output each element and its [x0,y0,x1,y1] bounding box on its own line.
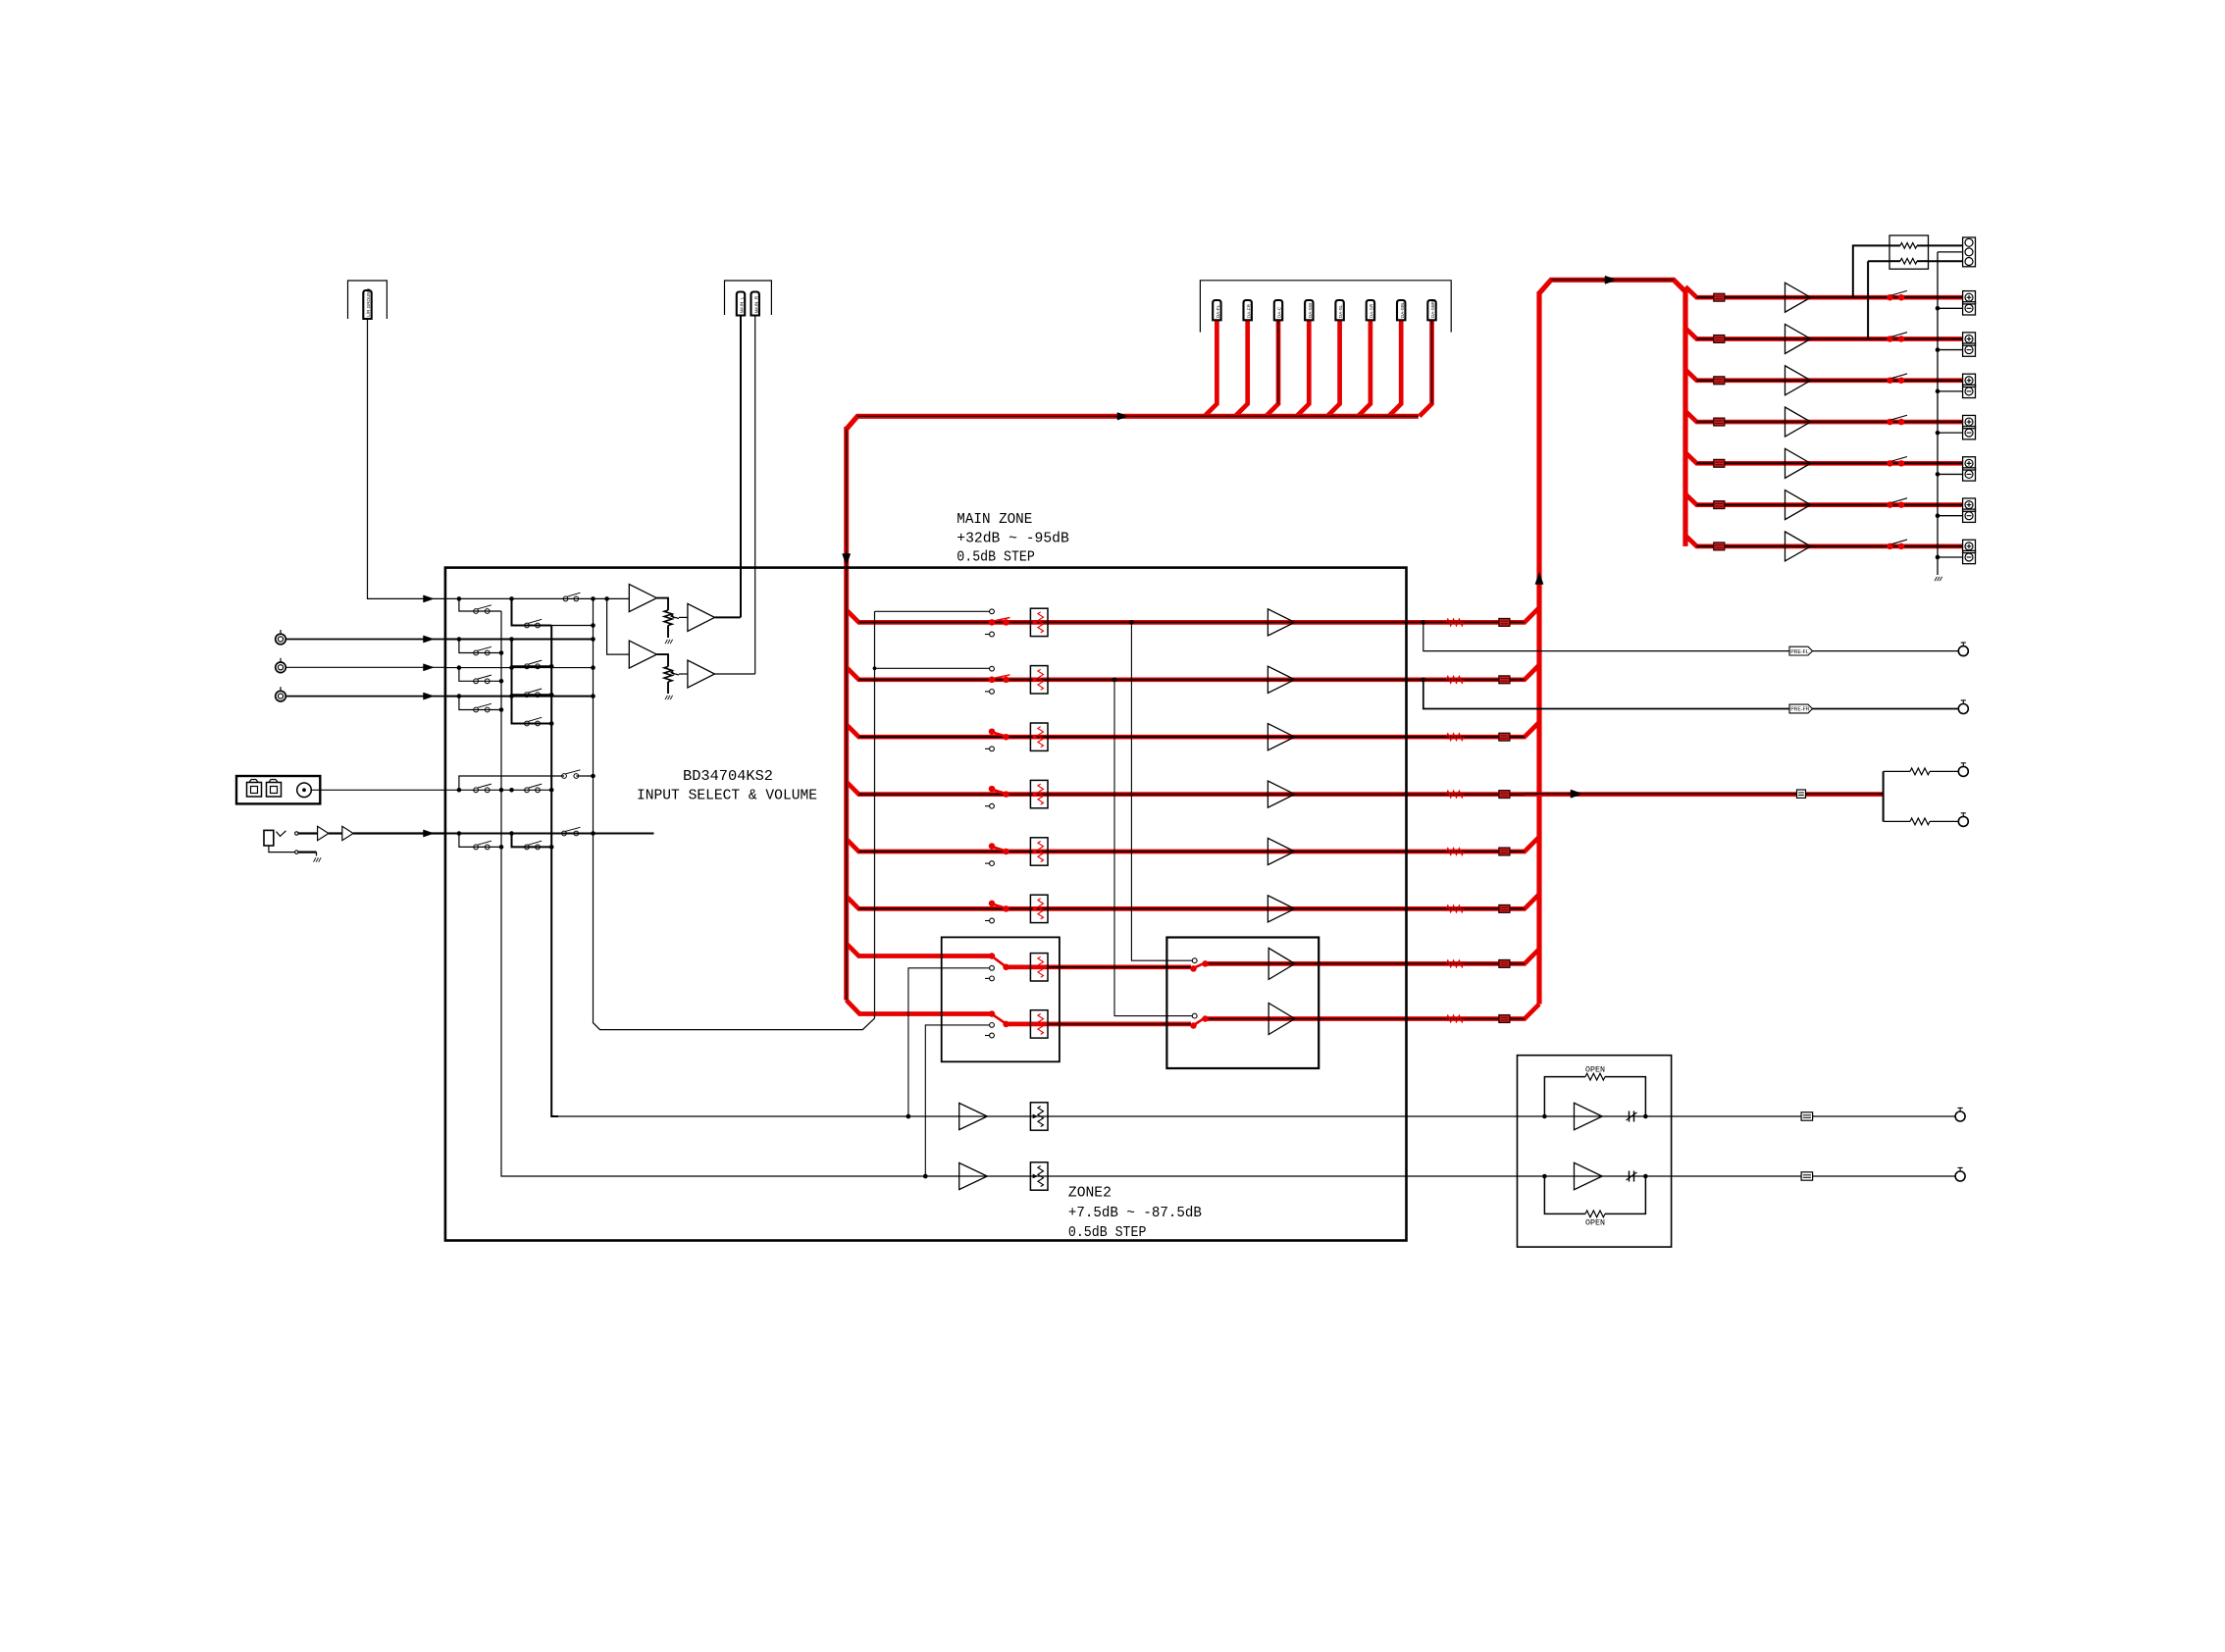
power amp SR [1785,448,1811,478]
wire ampA out to pot [656,598,668,610]
wire red row 7 output segment [1206,949,1540,963]
zone2 out row [1518,1175,1672,1177]
capacitor (no mount) [1629,1111,1630,1122]
switch row2a col1 [474,650,479,655]
impedance select terminal [1963,237,1976,267]
svg-text:INPUT SELECT & VOLUME: INPUT SELECT & VOLUME [637,789,817,804]
alt input line row1 [875,610,990,612]
wire black core bus top run [1551,279,1674,281]
capacitor (no mount) [1629,1171,1630,1182]
wire red channel row 6 [847,894,1539,908]
wire MAIN_L to buffer output [740,316,742,618]
wire v1153 row1 to box2 switch [1131,622,1192,960]
switch row2b col2 [525,664,530,669]
svg-text:0.5dB STEP: 0.5dB STEP [957,550,1035,566]
power amp SL [1785,407,1811,437]
series resistor row 2 [1446,676,1463,683]
RCA input jack 3 [276,691,286,701]
net label row 1 [1499,619,1510,627]
buffer amp D (main R 2nd) [688,660,715,688]
connector bracket MAIN in [725,281,772,315]
wire v1136 row2 to box2 switch [1114,680,1192,1016]
arrow input row [424,636,435,643]
svg-text:ZONE2: ZONE2 [1068,1186,1112,1202]
speaker terminal SR minus [1963,468,1976,481]
wire red row 8 output segment [1206,1005,1540,1019]
wire optical module to selector [311,789,445,791]
selector phones sub-row b thick [512,834,552,848]
power amp C [1785,366,1811,395]
ground speaker common [1935,577,1937,581]
volume attenuator row 3 [1030,723,1048,750]
net flag PRE-FR [1789,704,1813,713]
volume attenuator row 7 [1030,954,1048,981]
ground pot A [665,640,667,644]
wire red channel row 8 (pre-switch) [847,1001,992,1014]
headphone ground branch [269,846,295,852]
selector sub-row 1b thin continuation [551,625,593,627]
wire black core rows 7-8 [1048,966,1191,968]
switch surround row [989,954,994,958]
speaker terminal SL minus [1963,427,1976,439]
junction dots pre-out taps rows 1-2 [1422,620,1426,625]
volume attenuator row 1 [1030,608,1048,636]
potentiometer C [664,667,672,683]
switch row1a col1 [474,609,479,614]
switch optical col2 [525,788,530,793]
zone2 out amp [1575,1162,1603,1189]
wire from ground pin to input row 1 [368,319,445,598]
arrow phones line [424,830,435,837]
wire resistors to terminal [1929,244,1963,246]
volume attenuator row 4 [1030,780,1048,807]
selector sub-row 3b thick [512,668,552,696]
series resistor row 5 [1446,849,1463,855]
wire red channel row 1 [847,607,1539,622]
series resistor row 8 [1446,1015,1463,1022]
wire black core row 4 [858,794,1525,796]
wire alt throw to zone [925,1025,989,1176]
arrow up on volume bus [1535,573,1543,585]
net label PA SL [1714,418,1725,426]
zone2 volume 1 [1030,1103,1048,1130]
impedance resistor box [1889,235,1929,269]
wire black core row 3 [858,736,1525,738]
ground pot C [665,696,667,699]
zone2 buffer amp 2 [959,1162,988,1189]
wire red bus to power amps [1539,280,1685,546]
zone2 out line R [1672,1175,1956,1177]
wire ampD out up to MAIN_R [715,673,755,675]
buffer amp row 3 [1268,724,1294,750]
svg-text:DA-SR: DA-SR [1370,303,1374,318]
svg-text:DA-SBL: DA-SBL [1400,301,1405,318]
speaker terminal SR plus [1963,457,1976,470]
buffer amp box2 [1268,948,1295,979]
wire resistor2 to FR row [1867,261,1869,338]
wire black core DAC drops [1277,320,1279,404]
connector pin DA-C [1274,300,1282,320]
wire MAIN_R to buffer output [754,316,756,675]
wire ampC out to pot [656,654,668,666]
speaker terminal SL plus [1963,415,1976,428]
selector row 1 (from CN) [445,597,629,599]
net label PA SBL [1714,501,1725,509]
volume attenuator row 2 [1030,666,1048,694]
wire black core top bus [857,415,1419,417]
buffer amp C (main R 1st) [629,641,656,668]
switch row4b col2 [525,721,530,726]
selector sub-row 4a [459,697,501,710]
net label row 2 [1499,676,1510,684]
svg-text:+7.5dB ~ -87.5dB: +7.5dB ~ -87.5dB [1068,1206,1202,1221]
svg-text:+32dB ~ -95dB: +32dB ~ -95dB [957,532,1069,547]
series resistor row 6 [1446,905,1463,912]
arrow input row [424,595,435,602]
power amp SBR [1785,532,1811,561]
speaker terminal FR plus [1963,333,1976,345]
block BD34704KS2 input select and volume [445,568,1407,1241]
selector row 4 [445,696,594,697]
speaker terminal C minus [1963,385,1976,397]
wire ampB out up to MAIN_L [715,616,741,618]
connector pin DA-SR [1367,300,1374,320]
spare throw stub [990,976,995,981]
svg-text:DA-SBR: DA-SBR [1430,300,1435,318]
wire terminal SL minus to common [1938,432,1963,434]
switch row3b col2 [525,693,530,697]
wire black core row 2 [858,679,1525,681]
speaker terminal C plus [1963,374,1976,387]
ground symbol phones [314,857,316,861]
speaker common return line [1937,252,1939,575]
wire jack1 to selector [285,639,445,641]
connector pin L/R GROUND [363,290,371,319]
selector sub-row 4b thick [512,697,552,724]
switch volume row 2 [990,666,995,671]
net label PA SR [1714,459,1725,467]
wire terminal SBL minus to common [1938,515,1963,517]
volume attenuator row 6 [1030,895,1048,922]
headphone jack switch contact [277,831,286,837]
headphone buffer amp 1 [318,826,329,840]
speaker terminal SBL plus [1963,498,1976,511]
optical/coax input module [236,776,320,803]
relay contacts SBL [1888,502,1892,507]
net flag PRE-FL [1789,646,1813,655]
switch row4a col1 [474,707,479,712]
switch optical col3 [562,774,567,779]
wire black core row 6 [858,907,1525,909]
arrow input row [424,664,435,671]
svg-text:PRE-FL: PRE-FL [1790,649,1809,655]
arrow down on vertical feed [843,554,851,566]
zone2 out amp [1575,1103,1603,1129]
switch volume row 3 [990,747,995,751]
connector pin DA-SBL [1397,300,1405,320]
switch volume row 1 [990,609,995,614]
wire resistor1 to FL row [1853,245,1889,297]
selector phones sub-row a [459,834,501,848]
switch box2 [1192,1013,1197,1018]
selector vertical bus B thick [551,626,558,1117]
wire black core row 1 [858,621,1525,623]
switch volume row 4 [990,803,995,808]
arrow SW pre-out [1571,790,1582,798]
box zone2 output stage [1518,1056,1672,1247]
svg-text:MAIN_R: MAIN_R [753,295,758,313]
zone2 output jack R [1955,1171,1965,1181]
selector vertical bus A [501,611,508,1176]
switch row3a col1 [474,679,479,684]
wire red channel row 2 [847,665,1539,680]
buffer amp row 5 [1268,838,1294,864]
selector sub-row 2a [459,640,501,653]
potentiometer A [664,610,672,626]
svg-text:DA-FL: DA-FL [1216,304,1220,318]
wire terminal C minus to common [1938,390,1963,392]
SW pre-out splitter [1883,771,1885,821]
net label row 7 [1499,960,1510,968]
SW pre-out bottom branch [1884,820,1910,822]
connector bracket CN ground [348,281,388,319]
selector optical row [457,788,462,793]
selector sub-row 1a [459,598,501,611]
connector bracket DAC outputs [1200,281,1451,333]
power amp FR [1785,324,1811,353]
connector pin MAIN_L [737,292,745,316]
relay contacts SL [1888,419,1892,424]
svg-text:MAIN ZONE: MAIN ZONE [957,512,1032,528]
wire terminal FR minus to common [1938,349,1963,351]
zone2 row 2 line [508,1175,1407,1177]
arrow right on bus top run [1605,276,1617,284]
relay contacts FR [1888,336,1892,341]
selector branch to tone amp [607,598,630,654]
relay contacts SR [1888,461,1892,466]
toslink connector 2 [267,783,282,798]
net label row 5 [1499,848,1510,855]
wire red vertical main feed [844,427,849,1001]
buffer amp row 6 [1268,896,1294,922]
SW pre-out top branch [1884,770,1910,772]
relay contacts FL [1888,295,1892,300]
toslink connector 1 [247,783,262,798]
net label zone2 R [1801,1172,1813,1180]
box surround back reassign switches [942,937,1060,1061]
wire red channel row 7 (pre-switch) [847,944,992,956]
svg-text:OPEN: OPEN [1585,1066,1605,1075]
selector optical sub-row up [459,776,564,790]
svg-text:DA-C: DA-C [1277,306,1282,318]
SW pre-out jack 1 [1958,766,1968,776]
connector pin DA-FL [1213,300,1220,320]
wire alt throw to zone [908,968,990,1116]
SW pre-out jack 2 [1958,816,1968,826]
wire red volume bus vertical [1536,291,1541,1004]
switch row1 col3 [563,596,568,601]
arrow input row [424,693,435,699]
switch volume row 5 [990,861,995,866]
svg-text:L/R GROUND: L/R GROUND [366,287,371,317]
connector pin DA-SL [1335,300,1343,320]
speaker terminal SBL minus [1963,509,1976,522]
zone2 buffer amp 1 [959,1103,988,1129]
wire black core row 5 [858,851,1525,852]
switch phones sub col2 [525,845,530,850]
volume attenuator row 8 [1030,1010,1048,1038]
buffer amp B (main L 2nd) [688,603,715,631]
zone2 out row [1518,1115,1672,1117]
junction dot v1136 row2 [1112,678,1117,683]
connector pin DA-SBR [1427,300,1435,320]
power amp FL [1785,283,1811,312]
arrow on top bus [1117,413,1128,421]
wire black core vertical feed [846,429,848,1000]
svg-text:PRE-FR: PRE-FR [1790,707,1810,713]
pre-out FR line [1423,680,1789,709]
headphone buffer amp 2 [342,826,353,840]
wire red row 8 switched segment [1007,1022,1192,1027]
buffer amp row 1 [1268,609,1294,636]
series resistor row 3 [1446,734,1463,741]
net label row 6 [1499,905,1510,913]
relay contacts SBR [1888,543,1892,548]
wire terminal FL minus to common [1938,307,1963,309]
wire terminal SR minus to common [1938,473,1963,475]
wire red row 7 switched segment [1007,964,1192,969]
svg-text:0.5dB STEP: 0.5dB STEP [1068,1225,1147,1241]
wire black core row 4 pre-out [1525,793,1884,795]
wire red channel row 4 [847,782,1884,795]
buffer amp row 4 [1268,781,1294,807]
svg-text:DA-SW: DA-SW [1308,302,1313,318]
series resistor row 4 [1446,791,1463,798]
net label row 3 [1499,733,1510,741]
speaker terminal SBR plus [1963,540,1976,552]
wire DAC connector red drops [1205,320,1217,416]
feedback resistor OPEN [1544,1176,1585,1213]
net label SW [1797,790,1806,798]
svg-text:BD34704KS2: BD34704KS2 [683,769,773,785]
spare throw stub [990,1033,995,1038]
wire red power amp rows [1685,286,1963,297]
buffer amp row 2 [1268,666,1294,693]
connector pin DA-SW [1305,300,1313,320]
switch row1b col2 [525,623,530,628]
net label PA SBR [1714,542,1725,550]
box surround back buffer amps [1166,938,1319,1069]
wire red channel row 5 [847,837,1539,852]
headphone jack [264,830,274,846]
coax input circle [297,783,312,798]
speaker terminal SBR minus [1963,550,1976,563]
junction dot v1153 row1 [1129,620,1134,625]
RCA input jack 2 [276,662,286,673]
zone2 row 1 line [558,1115,1407,1117]
net label row 4 [1499,791,1510,799]
selector sub-row 1b thick [512,598,552,625]
wire terminal SBR minus to common [1938,556,1963,558]
switch box2 [1192,958,1197,963]
volume attenuator row 5 [1030,838,1048,865]
switch surround row [989,1011,994,1016]
zone2 output jack L [1955,1111,1965,1121]
wire jack2 to selector [285,666,445,668]
selector sub-row 3a [459,668,501,682]
connector pin DA-FR [1244,300,1252,320]
connector pin MAIN_R [751,292,759,316]
switch volume row 6 [990,918,995,923]
switch optical col1 [474,788,479,793]
wire red top bus from DAC connectors [847,416,1419,429]
buffer amp box2 [1268,1004,1295,1035]
net label PA C [1714,377,1725,385]
power amp SBL [1785,490,1811,520]
svg-text:OPEN: OPEN [1585,1219,1605,1228]
wire jack3 to selector [285,696,445,697]
selector phones row [445,833,654,835]
wire red channel row 3 [847,722,1539,737]
net label PA FL [1714,293,1725,301]
pre-out FL jack [1958,646,1968,656]
net label zone2 L [1801,1112,1813,1120]
svg-text:DA-SL: DA-SL [1338,304,1343,318]
svg-text:MAIN_L: MAIN_L [740,296,745,313]
impedance resistor 1 [1900,243,1917,249]
series resistor row 1 [1446,619,1463,626]
selector row 3 [445,667,594,669]
impedance resistor 2 [1900,258,1917,264]
pre-out FR jack [1958,704,1968,714]
RCA input jack 1 [276,634,286,645]
svg-text:DA-FR: DA-FR [1246,303,1251,318]
net label row 8 [1499,1015,1510,1023]
selector vertical bus C (alt bus) [594,598,875,1029]
zone2 out line L [1672,1115,1956,1117]
relay contacts C [1888,378,1892,383]
speaker terminal FR minus [1963,343,1976,356]
buffer amp A (main L 1st) [629,585,656,612]
switch phones sub col1 [474,845,479,850]
wire terminal common tap [1938,251,1963,253]
wire phones line to selector [353,832,445,834]
feedback resistor OPEN [1544,1077,1585,1116]
speaker terminal FL plus [1963,291,1976,304]
selector sub-row 2b thick [512,640,552,667]
zone2 volume 2 [1030,1162,1048,1190]
selector row 2 [445,639,594,641]
net label PA FR [1714,336,1725,343]
wire black core power amp rows [1697,296,1963,298]
switch phones col3 [562,831,567,836]
pre-out FL line [1423,622,1789,650]
alt input line row2 [875,667,990,669]
series resistor row 7 [1446,960,1463,967]
wire phones to buffers [298,832,318,834]
speaker terminal FL minus [1963,302,1976,315]
